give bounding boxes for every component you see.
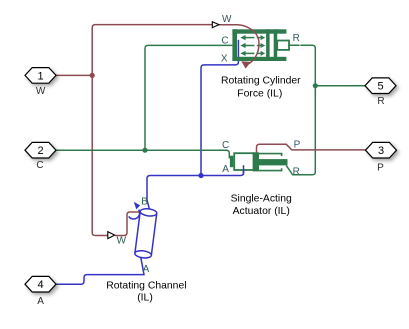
wire A net: port4 to channel A	[55, 256, 144, 284]
actuator body outline	[234, 153, 254, 170]
input triangle W of cylinder block	[212, 22, 219, 28]
wire W net: port1 to vertical trunk	[56, 74, 93, 76]
port1 hexagon	[25, 68, 56, 84]
wire W net lower branch into Rotating Channel	[115, 212, 141, 236]
svg-text:3: 3	[378, 145, 384, 157]
svg-text:Actuator (IL): Actuator (IL)	[233, 206, 290, 217]
actuator icon cap bar	[230, 156, 233, 168]
svg-text:C: C	[221, 35, 228, 46]
wire R net branch to port5	[315, 85, 365, 87]
svg-text:R: R	[293, 33, 300, 44]
actuator piston	[253, 152, 259, 171]
svg-text:C: C	[36, 160, 43, 171]
svg-text:C: C	[222, 140, 229, 151]
svg-text:Rotating Cylinder: Rotating Cylinder	[221, 76, 301, 87]
port5 hexagon	[365, 78, 396, 94]
junction green at C net	[142, 148, 147, 153]
svg-text:A: A	[222, 164, 229, 175]
svg-text:5: 5	[377, 81, 383, 93]
svg-text:W: W	[117, 235, 127, 246]
wire X net: junction right to actuator A	[201, 165, 244, 175]
op rotating cylinder force icon body	[232, 29, 286, 61]
svg-text:1: 1	[37, 70, 43, 82]
cylinder force rotation arrowhead	[241, 61, 251, 68]
wire W net vertical trunk and top run	[92, 25, 212, 236]
svg-text:Rotating Channel: Rotating Channel	[106, 280, 186, 291]
actuator rod	[259, 159, 288, 165]
svg-text:A: A	[37, 296, 44, 307]
svg-text:W: W	[36, 86, 46, 97]
wire P net: actuator P to port3	[257, 144, 366, 153]
cylinder force pressure arrows	[240, 35, 265, 56]
svg-text:P: P	[294, 139, 301, 150]
rotating channel rotation arc	[129, 210, 140, 219]
rotating channel cylinder	[134, 208, 157, 259]
wire C net branch up to cylinder block	[145, 45, 232, 150]
port2 hexagon	[25, 142, 56, 158]
wire X net: junction left down to channel B	[147, 176, 201, 212]
junction green at R net	[313, 83, 318, 88]
svg-text:B: B	[141, 197, 148, 208]
wire X net: cylinder X down to junction	[201, 40, 238, 176]
svg-text:P: P	[377, 162, 384, 173]
svg-text:R: R	[377, 96, 384, 107]
port anchor gap on R wire	[299, 44, 301, 47]
actuator upper wall	[259, 154, 282, 156]
port3 hexagon	[366, 142, 397, 158]
rotating channel rotation arrowhead	[134, 202, 140, 210]
svg-text:4: 4	[37, 279, 43, 291]
svg-text:2: 2	[37, 145, 43, 157]
svg-text:(IL): (IL)	[137, 292, 153, 303]
port4 hexagon	[25, 276, 56, 292]
svg-text:Single-Acting: Single-Acting	[231, 194, 292, 205]
actuator lower wall	[259, 168, 282, 170]
wire C net: port2 to actuator C	[56, 150, 230, 158]
svg-text:W: W	[222, 14, 232, 25]
junction maroon at port1 branch	[90, 73, 95, 78]
wire W net: from triangle to rotation arc start	[219, 24, 238, 26]
cylinder force rotation arc	[238, 25, 259, 64]
wire A stub inside actuator	[243, 165, 245, 175]
junction blue at X net	[198, 173, 203, 178]
svg-text:R: R	[293, 167, 300, 178]
wire R net: cylinder R down to actuator R	[286, 45, 315, 175]
cylinder force rod end box	[277, 41, 289, 50]
svg-text:Force (IL): Force (IL)	[237, 89, 282, 100]
input triangle W of rotating channel	[108, 232, 115, 239]
svg-text:A: A	[143, 264, 150, 275]
svg-text:X: X	[221, 54, 228, 65]
